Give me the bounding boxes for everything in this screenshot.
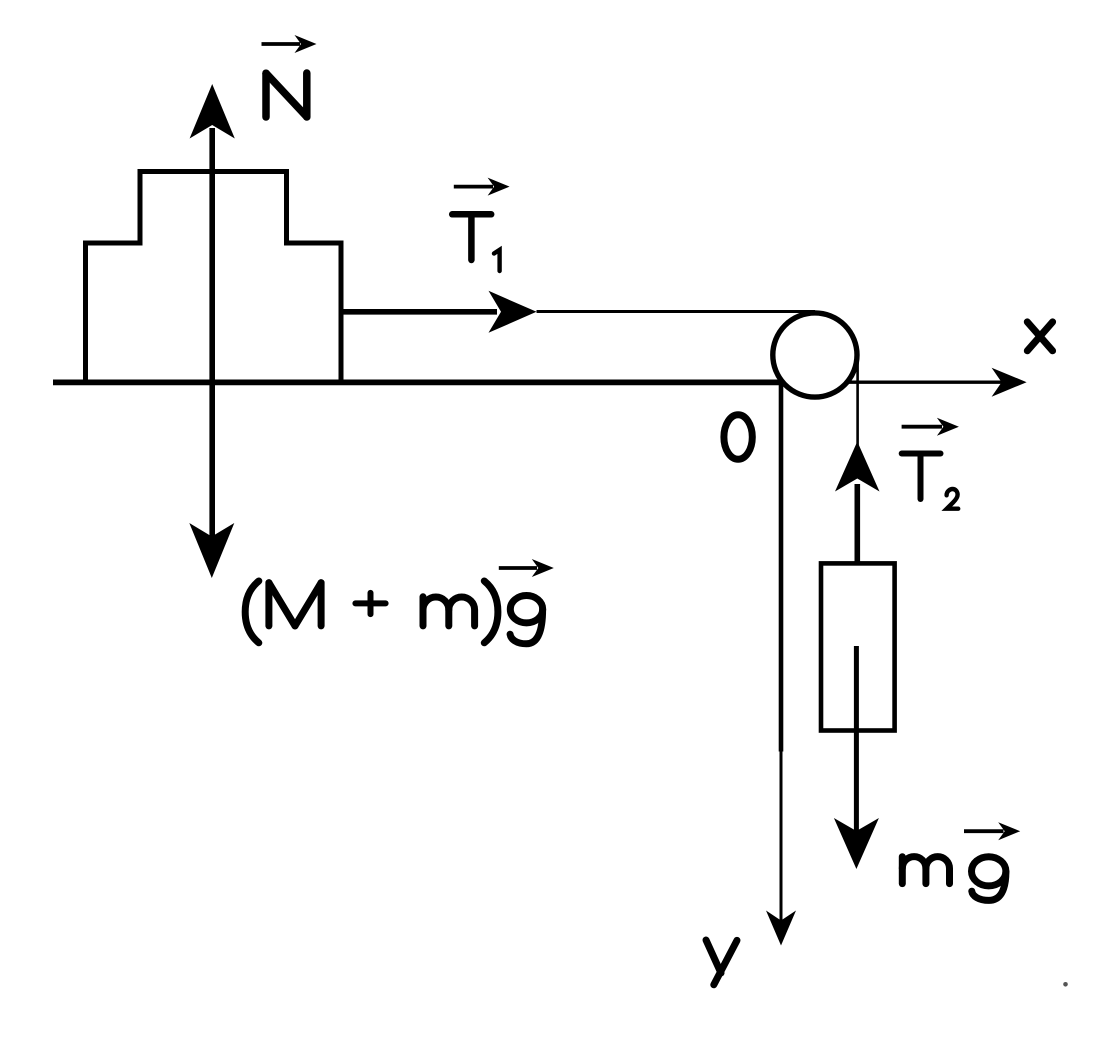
node x-axis arrowhead [992,368,1027,397]
vector arrow over T2 [902,418,959,436]
vector arrow over N [262,35,317,53]
vector arrow over g of mg [964,822,1020,840]
arrow T1 head [489,291,537,333]
pulley circle [773,313,857,397]
label x [1027,322,1052,351]
label T2 [902,454,959,509]
wire y-axis upper segment [779,379,784,752]
label y [706,940,737,985]
arrow (M+m)g head [189,523,234,578]
label mg [902,857,1006,901]
label 0 [724,415,752,460]
wire T2 shaft [854,484,860,563]
label T1 [452,214,499,271]
label N [266,73,307,117]
arrow T2 head [835,442,880,492]
vector arrow over T1 [454,178,510,196]
vector arrow over g of (M+m)g [499,559,554,577]
block M stepped [86,172,342,383]
node y-axis arrowhead [766,911,796,946]
wire rope block to pulley thick [341,309,497,315]
node period dot [1063,982,1068,987]
arrow mg head [834,818,879,869]
wire N vertical shaft [209,128,215,537]
label (M + m)g [245,581,543,644]
wire ground / x-axis thick left segment [53,379,783,385]
arrow N head [190,84,235,139]
wire mg shaft [854,646,859,850]
wire y-axis lower segment [780,752,783,932]
wire rope pulley down to mass [856,352,859,448]
wire x-axis thin right segment [781,381,1009,384]
wire rope arrowtip to pulley thin [537,310,816,313]
mass m rectangle [821,563,895,730]
